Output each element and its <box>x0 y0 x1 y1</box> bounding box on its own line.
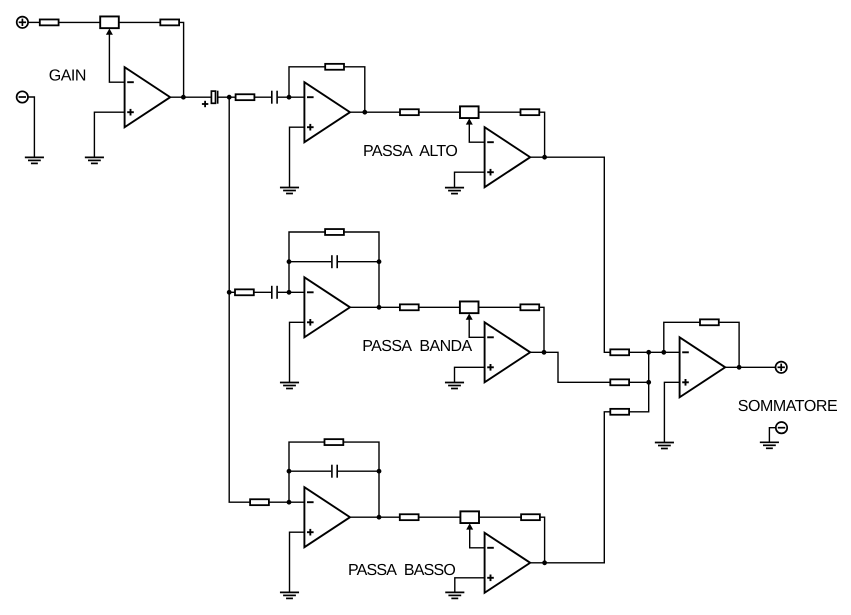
svg-text:PASSA ALTO: PASSA ALTO <box>363 143 457 160</box>
wire <box>719 322 739 367</box>
ground <box>445 383 464 389</box>
wire <box>350 306 400 308</box>
junction <box>542 155 547 160</box>
wire <box>278 291 305 293</box>
svg-text:PASSA BASSO: PASSA BASSO <box>348 562 455 579</box>
resistor R18 <box>610 409 629 415</box>
terminal OUT- <box>776 422 787 433</box>
wire <box>530 352 610 382</box>
junction <box>227 290 232 295</box>
wire <box>254 291 271 293</box>
junction <box>287 259 292 264</box>
wire <box>338 470 379 472</box>
op-amp U3 <box>485 127 531 187</box>
wire <box>629 352 649 412</box>
wire <box>28 21 40 23</box>
potentiometer P2 <box>460 106 479 124</box>
potentiometer P3 <box>460 301 479 319</box>
junction <box>661 350 666 355</box>
resistor R4 <box>325 64 344 70</box>
junction <box>287 500 292 505</box>
terminal IN- <box>17 91 28 102</box>
wire <box>28 97 34 157</box>
potentiometer P1 <box>100 16 119 34</box>
wire <box>109 34 124 83</box>
resistor R2 <box>160 19 179 25</box>
wire <box>664 382 679 442</box>
wire <box>344 232 379 307</box>
wire <box>338 261 379 263</box>
wire <box>725 366 775 368</box>
resistor R11 <box>610 349 629 355</box>
wire <box>278 96 305 98</box>
wire <box>479 516 521 518</box>
ground <box>25 157 44 163</box>
wire <box>344 67 365 112</box>
resistor R5 <box>400 109 419 115</box>
wire main rail <box>229 97 250 502</box>
junction <box>181 95 186 100</box>
terminal OUT+ <box>776 362 787 373</box>
junction <box>646 350 651 355</box>
resistor R14 <box>325 439 344 445</box>
wire <box>539 112 544 157</box>
wire <box>530 157 610 352</box>
junction <box>362 110 367 115</box>
resistor R9 <box>400 304 419 310</box>
wire <box>350 516 400 518</box>
wire <box>119 21 161 23</box>
capacitor C3 <box>272 286 277 299</box>
wire <box>179 22 184 97</box>
wire <box>269 501 305 503</box>
junction <box>377 515 382 520</box>
wire <box>629 381 649 383</box>
junction <box>542 350 547 355</box>
svg-text:SOMMATORE: SOMMATORE <box>738 398 837 415</box>
op-amp U1 <box>125 67 171 127</box>
wire <box>289 67 325 97</box>
svg-text:PASSA BANDA: PASSA BANDA <box>362 338 472 355</box>
wire <box>664 322 700 352</box>
junction <box>287 469 292 474</box>
wire <box>469 123 484 142</box>
ground <box>655 443 674 449</box>
wire <box>455 172 485 187</box>
ground <box>85 157 104 163</box>
resistor R12 <box>610 379 629 385</box>
wire <box>343 442 379 517</box>
wire <box>419 111 460 113</box>
wire <box>470 528 485 547</box>
ground <box>280 383 299 389</box>
wire <box>350 111 400 113</box>
wire <box>94 112 124 157</box>
op-amp U5 <box>485 322 531 382</box>
junction <box>646 380 651 385</box>
op-amp U8 <box>485 533 531 593</box>
wire <box>530 412 610 563</box>
junction <box>542 560 547 565</box>
wire <box>290 322 305 382</box>
op-amp U6 <box>680 337 726 397</box>
resistor R7 <box>235 289 254 295</box>
resistor R8 <box>325 229 344 235</box>
wire <box>59 21 101 23</box>
wire <box>289 470 331 472</box>
wire <box>219 96 236 98</box>
wire <box>769 428 775 443</box>
wire <box>469 319 484 338</box>
resistor R15 <box>400 514 419 520</box>
ground <box>280 188 299 194</box>
ground <box>445 592 464 598</box>
ground <box>280 592 299 598</box>
wire <box>289 442 325 502</box>
wire <box>290 532 305 592</box>
wire <box>455 578 485 593</box>
resistor R6 <box>521 109 540 115</box>
capacitor C4 <box>332 255 337 268</box>
junction <box>377 305 382 310</box>
capacitor C5 <box>332 465 337 478</box>
op-amp U7 <box>304 487 350 547</box>
op-amp U2 <box>304 82 350 142</box>
resistor R13 <box>250 499 269 505</box>
ground <box>760 442 779 448</box>
resistor R1 <box>40 19 59 25</box>
junction <box>737 365 742 370</box>
wire <box>539 307 544 352</box>
resistor R16 <box>521 514 540 520</box>
wire <box>170 96 211 98</box>
wire <box>629 351 680 353</box>
wire <box>419 516 461 518</box>
terminal IN+ <box>17 17 28 28</box>
wire <box>479 306 521 308</box>
ground <box>445 188 464 194</box>
junction <box>377 259 382 264</box>
resistor R10 <box>520 304 539 310</box>
wire <box>289 232 325 292</box>
wire <box>254 96 271 98</box>
wire <box>289 261 331 263</box>
svg-text:GAIN: GAIN <box>49 68 86 85</box>
wire <box>290 127 305 187</box>
junction <box>377 469 382 474</box>
resistor R17 <box>700 319 719 325</box>
wire <box>479 111 521 113</box>
op-amp U4 <box>304 277 350 337</box>
wire <box>229 291 235 293</box>
junction <box>287 290 292 295</box>
potentiometer P4 <box>460 511 479 529</box>
resistor R3 <box>236 94 255 100</box>
junction <box>227 95 232 100</box>
capacitor C2 <box>272 91 277 104</box>
wire <box>540 517 545 563</box>
junction <box>287 95 292 100</box>
wire <box>419 306 460 308</box>
wire <box>455 367 485 382</box>
capacitor C1 <box>202 91 218 108</box>
